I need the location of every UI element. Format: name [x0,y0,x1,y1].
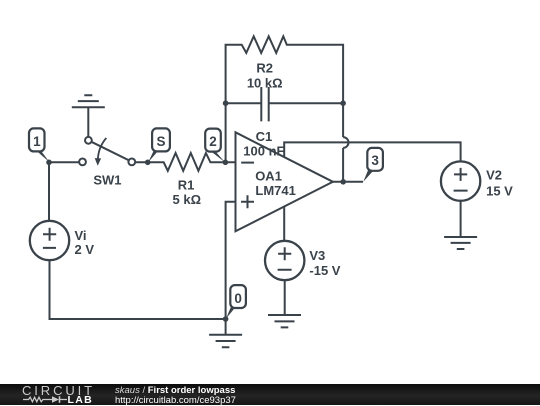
svg-text:100 nF: 100 nF [243,143,284,158]
svg-text:S: S [156,134,165,149]
svg-text:0: 0 [234,291,242,306]
svg-text:R1: R1 [178,177,195,192]
svg-text:2: 2 [209,134,217,149]
svg-text:R2: R2 [256,60,273,75]
svg-text:Vi: Vi [75,228,87,243]
svg-text:1: 1 [33,134,41,149]
svg-text:10 kΩ: 10 kΩ [247,75,283,90]
svg-text:V2: V2 [486,168,502,183]
svg-text:OA1: OA1 [255,168,282,183]
svg-text:-15 V: -15 V [309,263,340,278]
svg-text:2 V: 2 V [75,242,95,257]
svg-text:15 V: 15 V [486,184,513,199]
svg-text:C1: C1 [256,129,273,144]
svg-text:V3: V3 [309,248,325,263]
svg-text:3: 3 [371,153,379,168]
svg-text:5 kΩ: 5 kΩ [173,192,202,207]
svg-text:LM741: LM741 [255,183,295,198]
svg-text:SW1: SW1 [93,173,121,188]
